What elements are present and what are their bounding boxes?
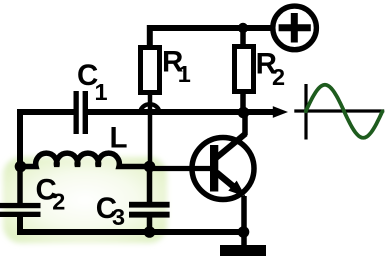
junction: base node — [144, 161, 156, 173]
green highlight (tank capacitors region) — [3, 157, 167, 243]
transistor Q1 — [192, 134, 254, 200]
svg-text:2: 2 — [52, 189, 65, 215]
wire: C3 top lead from base node — [147, 167, 153, 204]
capacitor C1 — [74, 91, 89, 134]
label R2 — [256, 48, 285, 91]
svg-text:1: 1 — [178, 61, 191, 87]
svg-text:1: 1 — [95, 79, 108, 105]
power supply V+ — [273, 6, 317, 50]
svg-text:2: 2 — [272, 64, 285, 90]
capacitor C3 — [129, 202, 170, 218]
junction: tank left node — [15, 161, 27, 173]
junction: output node (R2 bottom) — [238, 107, 250, 119]
wire: C2 top lead — [17, 167, 23, 205]
wire: output line (C1 right to arrow) — [88, 109, 276, 115]
wire hop: R1-to-base wire crossing over output line — [140, 104, 159, 113]
label R1 — [162, 46, 191, 88]
wire: emitter down to ground — [241, 196, 247, 246]
wire: bottom return (C2 bottom to emitter node) — [20, 217, 244, 233]
svg-text:3: 3 — [112, 204, 125, 230]
label C2 — [36, 174, 66, 215]
wire: R1 bottom through hop down to base node — [148, 94, 153, 167]
label C1 — [77, 59, 108, 105]
wire: C1 left down to tank left node — [20, 112, 74, 167]
junction: top of R2 — [238, 23, 248, 33]
resistor R1 — [141, 48, 160, 93]
resistor R2 — [235, 47, 254, 92]
wire: C3 bottom lead — [147, 217, 153, 232]
wire: R2 leads — [240, 28, 246, 113]
junction: C3 bottom — [144, 226, 156, 238]
inductor L — [20, 153, 150, 166]
label C3 — [96, 192, 125, 230]
output waveform plot — [294, 84, 384, 140]
junction: emitter node — [238, 226, 250, 238]
svg-text:L: L — [110, 122, 128, 155]
ground — [220, 245, 266, 256]
wire: base lead — [150, 166, 212, 171]
wire: top supply rail from R1 top to power supply — [150, 28, 272, 47]
output arrow — [273, 106, 288, 118]
wire: collector up to output node — [242, 113, 248, 136]
capacitor C2 — [0, 203, 41, 217]
